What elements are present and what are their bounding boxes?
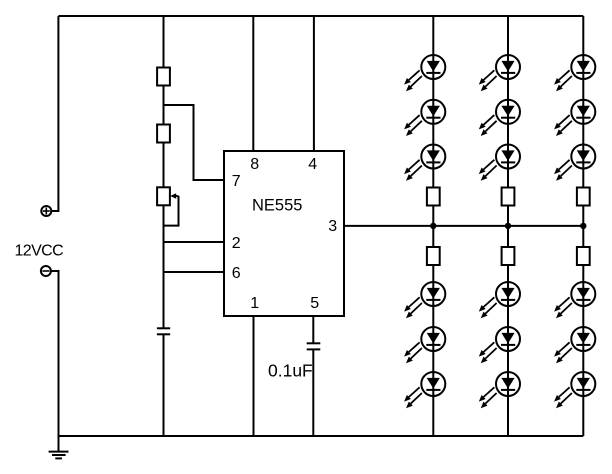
node junction column1 [430, 223, 436, 229]
wire LED column 3 [582, 16, 584, 436]
LED D12 [479, 372, 520, 408]
wire pin 4 to top rail [313, 16, 315, 151]
wire junction to pin 7 [164, 105, 225, 180]
LED D1 [404, 55, 445, 91]
resistor R7 [502, 247, 515, 265]
wire positive terminal to top rail [51, 16, 58, 211]
LED D10 [479, 282, 520, 318]
potentiometer R3 [157, 187, 170, 205]
svg-text:1: 1 [250, 295, 259, 312]
capacitor C1 [157, 328, 170, 334]
capacitor C2 0.1uF [307, 343, 321, 349]
svg-text:8: 8 [250, 156, 259, 173]
LED D13 [554, 55, 595, 91]
svg-text:6: 6 [232, 265, 241, 282]
op-amp U1 NE555 body [224, 151, 344, 316]
svg-text:7: 7 [232, 173, 241, 190]
LED D16 [554, 282, 595, 318]
LED D11 [479, 327, 520, 363]
svg-text:5: 5 [310, 295, 319, 312]
wire top supply rail [58, 15, 583, 17]
LED D2 [404, 100, 445, 136]
node junction column3 [580, 223, 586, 229]
wire LED column 2 [507, 16, 509, 436]
wire timing branch vertical upper [163, 16, 165, 328]
LED D6 [404, 372, 445, 408]
wire pin 8 to top rail [252, 16, 254, 151]
LED D4 [404, 282, 445, 318]
svg-text:4: 4 [308, 156, 317, 173]
wire pin 6 [164, 271, 225, 273]
wire timing branch vertical lower [163, 334, 165, 436]
wire pin 5 lower [312, 349, 314, 436]
LED D18 [554, 372, 595, 408]
svg-text:12VCC: 12VCC [15, 243, 64, 260]
LED D7 [479, 55, 520, 91]
wire pin 3 output rail [344, 225, 583, 227]
wire pin 2 [164, 241, 225, 243]
LED D15 [554, 145, 595, 181]
resistor R8 [577, 188, 590, 206]
wire negative terminal to bottom rail [51, 271, 59, 436]
LED D17 [554, 327, 595, 363]
node junction column2 [505, 223, 511, 229]
LED D3 [404, 145, 445, 181]
wire pin 5 upper [312, 316, 314, 343]
LED D8 [479, 100, 520, 136]
terminal + [41, 206, 51, 216]
ground [49, 436, 69, 458]
terminal - [41, 266, 51, 276]
resistor R4 [427, 188, 440, 206]
wire bottom ground rail [59, 435, 584, 437]
resistor R6 [502, 188, 515, 206]
potentiometer wiper arrow [164, 193, 179, 225]
wire pin 1 to bottom rail [253, 316, 255, 436]
resistor R9 [577, 247, 590, 265]
LED D14 [554, 100, 595, 136]
resistor R2 [157, 125, 170, 143]
svg-text:0.1uF: 0.1uF [268, 361, 313, 381]
LED D5 [404, 327, 445, 363]
svg-text:3: 3 [328, 218, 337, 235]
wire LED column 1 [432, 16, 434, 436]
svg-text:2: 2 [232, 235, 241, 252]
LED D9 [479, 145, 520, 181]
resistor R5 [427, 247, 440, 265]
svg-text:NE555: NE555 [252, 196, 302, 214]
resistor R1 [157, 68, 170, 86]
